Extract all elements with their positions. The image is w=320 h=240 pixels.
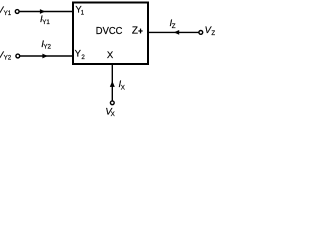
- node terminal V_X: [110, 101, 114, 105]
- pin label Y1: [75, 5, 84, 17]
- arrow I_Z direction: [174, 30, 179, 35]
- svg-text:DVCC: DVCC: [96, 26, 123, 37]
- svg-text:X: X: [121, 84, 125, 91]
- svg-text:X: X: [107, 50, 114, 61]
- svg-text:1: 1: [81, 9, 85, 16]
- pin label Y2: [75, 49, 86, 62]
- label I_Y1: [40, 14, 50, 26]
- wire Y2: [20, 55, 73, 57]
- node terminal V_Y1: [15, 10, 19, 14]
- node terminal V_Y2: [16, 54, 20, 58]
- label V_X: [105, 106, 114, 118]
- label I_X: [119, 79, 125, 91]
- arrow I_Y1 direction: [40, 9, 45, 14]
- wire Y1: [19, 11, 73, 13]
- wire Z: [148, 31, 199, 33]
- svg-text:Y2: Y2: [4, 55, 12, 62]
- svg-text:Z: Z: [172, 23, 176, 30]
- svg-text:Z: Z: [211, 30, 215, 37]
- svg-text:2: 2: [81, 54, 85, 61]
- svg-text:Y1: Y1: [42, 19, 50, 26]
- arrow I_Y2 direction: [42, 54, 47, 59]
- DVCC block U1 body: [73, 3, 148, 65]
- wire X: [111, 65, 113, 101]
- svg-text:X: X: [111, 111, 115, 118]
- label I_Y2: [41, 39, 51, 51]
- label V_Y1: [0, 5, 12, 17]
- label I_Z: [170, 18, 176, 30]
- svg-text:Y2: Y2: [43, 44, 51, 51]
- label V_Y2: [0, 50, 12, 62]
- svg-text:Y1: Y1: [4, 10, 12, 17]
- arrow I_X direction: [110, 81, 115, 87]
- label V_Z: [205, 25, 216, 37]
- node terminal V_Z: [199, 31, 203, 35]
- svg-text:Z: Z: [132, 25, 138, 36]
